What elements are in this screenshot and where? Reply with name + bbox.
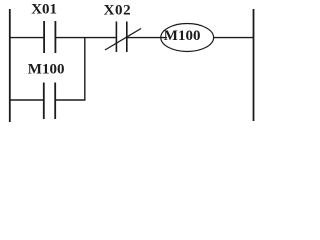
svg-text:M100: M100	[164, 28, 201, 44]
svg-text:M100: M100	[28, 62, 65, 78]
svg-text:X02: X02	[104, 2, 132, 18]
svg-text:X01: X01	[31, 2, 57, 18]
